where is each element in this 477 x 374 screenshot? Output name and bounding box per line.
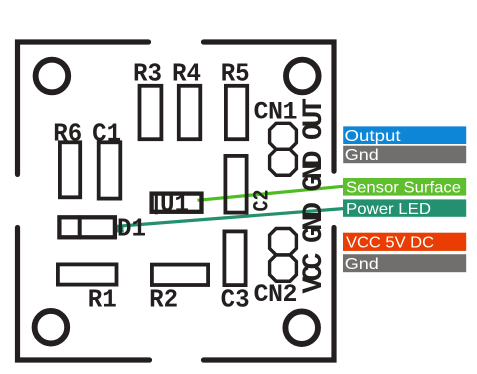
board outline top-left corner xyxy=(18,42,149,174)
resistor R1 xyxy=(58,264,117,284)
wire sensor surface (green) xyxy=(198,186,344,200)
svg-text:Gnd: Gnd xyxy=(345,147,379,164)
svg-text:U1: U1 xyxy=(160,189,189,219)
mounting hole bottom-left xyxy=(35,311,68,344)
mounting hole bottom-right xyxy=(285,311,318,344)
connector CN2 pad 1 xyxy=(270,229,297,255)
mounting hole top-right xyxy=(286,60,319,93)
svg-text:C2: C2 xyxy=(250,190,275,212)
svg-text:Gnd: Gnd xyxy=(345,256,379,273)
svg-text:R1: R1 xyxy=(88,285,117,315)
capacitor C1 xyxy=(99,142,121,198)
board outline bottom-left corner xyxy=(18,228,150,361)
label box Sensor Surface xyxy=(343,178,466,196)
resistor R6 xyxy=(60,142,80,197)
svg-text:R2: R2 xyxy=(149,285,178,315)
svg-text:R3: R3 xyxy=(133,59,162,89)
svg-text:R4: R4 xyxy=(172,59,201,89)
diode D1 xyxy=(59,217,115,237)
connector CN1 pad 2 xyxy=(270,149,297,175)
capacitor C3 xyxy=(224,231,245,285)
svg-text:GND: GND xyxy=(299,151,330,192)
svg-text:CN2: CN2 xyxy=(254,280,298,309)
svg-text:Sensor Surface: Sensor Surface xyxy=(346,180,461,197)
resistor R5 xyxy=(226,86,247,139)
wire power led (teal) xyxy=(117,209,343,227)
svg-text:R6: R6 xyxy=(53,118,82,148)
svg-text:C3: C3 xyxy=(221,285,250,315)
board outline top-right corner xyxy=(204,42,335,171)
label box VCC 5V DC xyxy=(343,233,466,251)
board outline bottom-right corner xyxy=(204,228,335,361)
svg-text:Power LED: Power LED xyxy=(346,201,431,218)
connector CN1 pad 1 xyxy=(270,123,297,149)
label box Output xyxy=(343,126,466,144)
svg-text:Output: Output xyxy=(345,128,402,145)
svg-text:R5: R5 xyxy=(221,59,250,89)
label box Gnd (vcc) xyxy=(343,254,466,272)
svg-text:VCC: VCC xyxy=(299,252,330,293)
resistor R3 xyxy=(140,86,162,139)
label box Gnd (output) xyxy=(343,146,466,164)
svg-text:GND: GND xyxy=(299,202,330,243)
svg-text:VCC 5V DC: VCC 5V DC xyxy=(346,235,434,252)
capacitor C2 xyxy=(225,156,246,213)
svg-text:D1: D1 xyxy=(117,213,146,243)
mounting hole top-left xyxy=(36,60,69,93)
connector CN2 pad 2 xyxy=(270,255,297,281)
svg-text:OUT: OUT xyxy=(299,98,330,140)
IC U1 xyxy=(152,194,202,212)
resistor R4 xyxy=(179,86,201,139)
resistor R2 xyxy=(152,265,208,285)
label box Power LED xyxy=(343,199,466,216)
wire power led start blob xyxy=(114,225,124,233)
svg-text:C1: C1 xyxy=(92,118,121,148)
